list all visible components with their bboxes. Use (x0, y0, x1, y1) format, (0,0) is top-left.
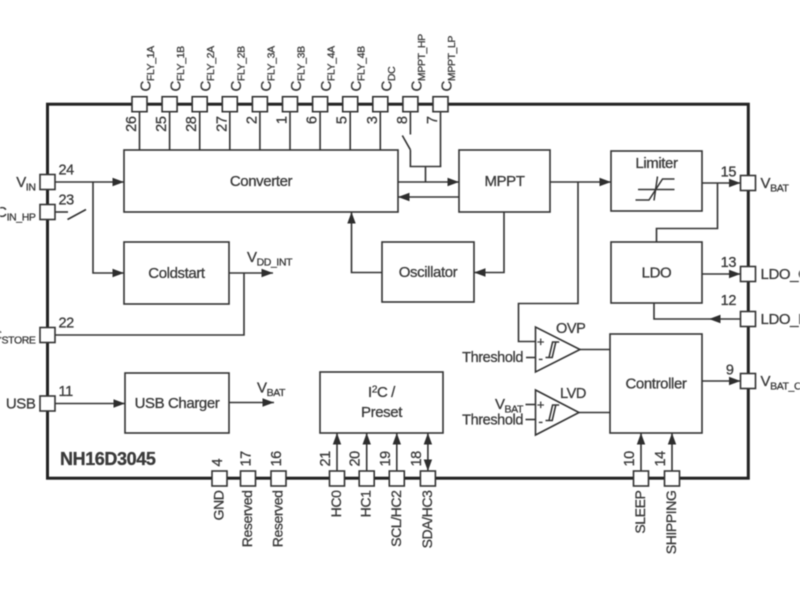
wire OVP sense from MPPT-Limiter node (519, 182, 579, 342)
svg-text:Threshold: Threshold (462, 413, 523, 429)
svg-text:SDA/HC3: SDA/HC3 (419, 490, 435, 548)
wire MPPT bottom to Oscillator (474, 212, 504, 273)
wire SHIPPING to Controller (671, 433, 673, 471)
wire stub from pin 23 (55, 211, 68, 213)
svg-text:-: - (538, 350, 543, 366)
wire pin 12 LDO_EN to LDO bottom (654, 303, 741, 319)
wire pin 8 upper stub (409, 112, 411, 135)
svg-text:17: 17 (239, 451, 255, 467)
pin 4 GND square (212, 471, 227, 486)
svg-text:19: 19 (378, 451, 394, 467)
wire V_IN branch down to Coldstart (93, 182, 124, 273)
block Limiter (611, 151, 702, 211)
wire Controller output to pin 9 (702, 380, 741, 382)
pin 12 square (741, 312, 756, 327)
svg-text:21: 21 (318, 451, 334, 467)
pin 26 C_FLY_1A square (132, 97, 147, 112)
svg-text:OVP: OVP (556, 321, 585, 337)
pin 3 C_DC square (373, 97, 388, 112)
svg-text:1: 1 (275, 116, 291, 124)
switch S1 on C_MPPT_HP line (402, 136, 410, 150)
wire HC1 to I2C block (366, 433, 368, 471)
wire USB Charger output V_BAT (229, 402, 274, 404)
pin 21 HC0 square (330, 471, 345, 486)
svg-text:SLEEP: SLEEP (632, 490, 648, 533)
svg-text:Reserved: Reserved (239, 491, 255, 548)
svg-text:GND: GND (211, 490, 227, 520)
comparator LVD (536, 390, 580, 435)
wire V_BAT stub to LVD plus (526, 404, 536, 406)
pin 7 C_MPPT_LP square (433, 97, 448, 112)
svg-text:6: 6 (305, 116, 321, 124)
pin 2 C_FLY_3A square (252, 97, 267, 112)
wire LVD output to Controller (579, 412, 610, 414)
svg-text:HC1: HC1 (358, 490, 374, 517)
svg-text:LVD: LVD (560, 386, 586, 402)
svg-text:HC0: HC0 (328, 490, 344, 517)
block Converter (124, 150, 398, 212)
pin 23 C_IN_HP square (40, 205, 55, 220)
switch S2 on C_IN_HP line (68, 210, 87, 220)
wire drop from U to MPPT input line (425, 167, 427, 183)
wire pin 25 to Converter top (169, 112, 171, 151)
wire pin 26 to Converter top (139, 112, 141, 151)
OVP hysteresis icon (546, 342, 556, 358)
wire C_STORE to VDD_INT node (55, 273, 244, 335)
pin 14 SHIPPING square (665, 471, 680, 486)
svg-text:+: + (537, 334, 544, 349)
svg-text:LDO_OUT: LDO_OUT (761, 266, 800, 283)
svg-text:MPPT: MPPT (484, 173, 524, 190)
pin 10 SLEEP square (634, 471, 649, 486)
chip outer boundary NH16D3045 (48, 104, 749, 478)
svg-text:Limiter: Limiter (635, 155, 678, 172)
block Oscillator (382, 242, 474, 302)
pin 18 SDA/HC3 square (420, 471, 435, 486)
svg-text:11: 11 (59, 384, 74, 400)
svg-text:Coldstart: Coldstart (148, 265, 206, 282)
svg-text:7: 7 (425, 116, 441, 124)
svg-text:-: - (538, 413, 543, 429)
wire pin 1 to Converter top (289, 112, 291, 151)
wire Oscillator to Converter bottom (352, 212, 383, 273)
block Coldstart (124, 242, 229, 304)
wire pin 28 to Converter top (199, 112, 201, 151)
wire MPPT to Converter (398, 196, 459, 198)
LVD hysteresis icon (546, 405, 556, 421)
svg-text:28: 28 (184, 116, 200, 132)
pin 5 C_FLY_4B square (343, 97, 358, 112)
wire USB to USB Charger (55, 403, 125, 405)
wire HC0 to I2C block (336, 433, 338, 471)
pin 19 SCL/HC2 square (389, 471, 404, 486)
svg-text:SHIPPING: SHIPPING (663, 491, 679, 555)
wire SCL/HC2 to I2C block (396, 433, 398, 471)
wire pin 5 to Converter top (349, 112, 351, 151)
svg-text:Threshold: Threshold (462, 350, 523, 366)
svg-text:4: 4 (210, 459, 226, 467)
block LDO (611, 242, 702, 303)
wire OVP output to Controller (580, 349, 610, 351)
pin 20 HC1 square (359, 471, 374, 486)
svg-text:Converter: Converter (230, 173, 293, 190)
svg-text:25: 25 (154, 116, 170, 132)
pin 1 C_FLY_3B square (283, 97, 298, 112)
limiter saturation icon (636, 179, 675, 200)
svg-text:16: 16 (269, 451, 285, 467)
block USB Charger (125, 373, 229, 433)
svg-text:8: 8 (395, 116, 411, 124)
svg-text:USB Charger: USB Charger (135, 395, 220, 412)
svg-text:27: 27 (214, 116, 230, 132)
svg-text:LDO: LDO (642, 265, 672, 282)
wire LDO output to pin 13 (702, 273, 741, 275)
svg-text:18: 18 (409, 451, 425, 467)
svg-text:+: + (537, 397, 544, 412)
comparator OVP (536, 327, 581, 372)
svg-text:14: 14 (653, 451, 669, 467)
svg-text:SCL/HC2: SCL/HC2 (388, 490, 404, 547)
wire V_BAT branch down to LDO top (657, 183, 718, 242)
wire SLEEP to Controller (640, 433, 642, 471)
pin 22 C_STORE square (40, 328, 55, 343)
wire pin 8 lower stub (409, 150, 411, 167)
svg-text:Preset: Preset (361, 404, 403, 421)
wire MPPT to Limiter (550, 181, 611, 183)
block I2C / Preset (320, 372, 443, 433)
svg-text:2: 2 (244, 116, 260, 124)
svg-text:15: 15 (721, 165, 737, 181)
wire pin 6 to Converter top (319, 112, 321, 151)
svg-text:23: 23 (59, 193, 75, 209)
wire Converter to MPPT (398, 181, 459, 183)
svg-text:22: 22 (59, 316, 75, 332)
pin 13 square (741, 267, 756, 282)
svg-text:24: 24 (59, 163, 75, 179)
pin 11 USB square (40, 396, 55, 411)
svg-text:20: 20 (348, 451, 364, 467)
block Controller (610, 334, 702, 433)
wire V_IN to Converter (55, 181, 124, 183)
svg-text:Oscillator: Oscillator (399, 264, 458, 281)
pin 15 V_BAT square (741, 176, 756, 191)
pin 6 C_FLY_4A square (313, 97, 328, 112)
pin 9 square (741, 374, 756, 389)
svg-text:Controller: Controller (625, 376, 686, 393)
pin 25 C_FLY_1B square (162, 97, 177, 112)
pin 8 C_MPPT_HP square (403, 97, 418, 112)
wire U bottom joining pins 8 and 7 (410, 166, 442, 168)
svg-text:LDO_EN: LDO_EN (761, 311, 800, 328)
wire pin 2 to Converter top (259, 112, 261, 151)
wire pin 3 to Converter top (379, 112, 381, 151)
svg-text:Reserved: Reserved (270, 491, 286, 548)
svg-text:10: 10 (622, 451, 638, 467)
block MPPT (459, 150, 550, 212)
wire pin 27 to Converter top (229, 112, 231, 151)
svg-text:12: 12 (721, 293, 737, 309)
wire Coldstart output V_DD_INT (229, 272, 273, 274)
pin 16 Reserved square (271, 471, 286, 486)
wire Threshold stub to OVP minus (526, 357, 536, 359)
wire Threshold stub to LVD minus (526, 419, 536, 421)
pin 27 C_FLY_2B square (222, 97, 237, 112)
svg-text:NH16D3045: NH16D3045 (60, 449, 156, 469)
wire pin 7 down (440, 112, 442, 167)
pin 24 V_IN square (40, 175, 55, 190)
pin 28 C_FLY_2A square (192, 97, 207, 112)
pin 17 Reserved square (241, 471, 256, 486)
wire Limiter output to pin 15 (702, 182, 741, 184)
svg-text:13: 13 (721, 255, 737, 271)
svg-text:26: 26 (124, 116, 140, 132)
svg-text:5: 5 (335, 116, 351, 124)
wire SDA/HC3 bidirectional (427, 433, 429, 471)
svg-text:USB: USB (6, 396, 36, 413)
svg-text:9: 9 (726, 363, 734, 379)
svg-text:3: 3 (365, 116, 381, 124)
